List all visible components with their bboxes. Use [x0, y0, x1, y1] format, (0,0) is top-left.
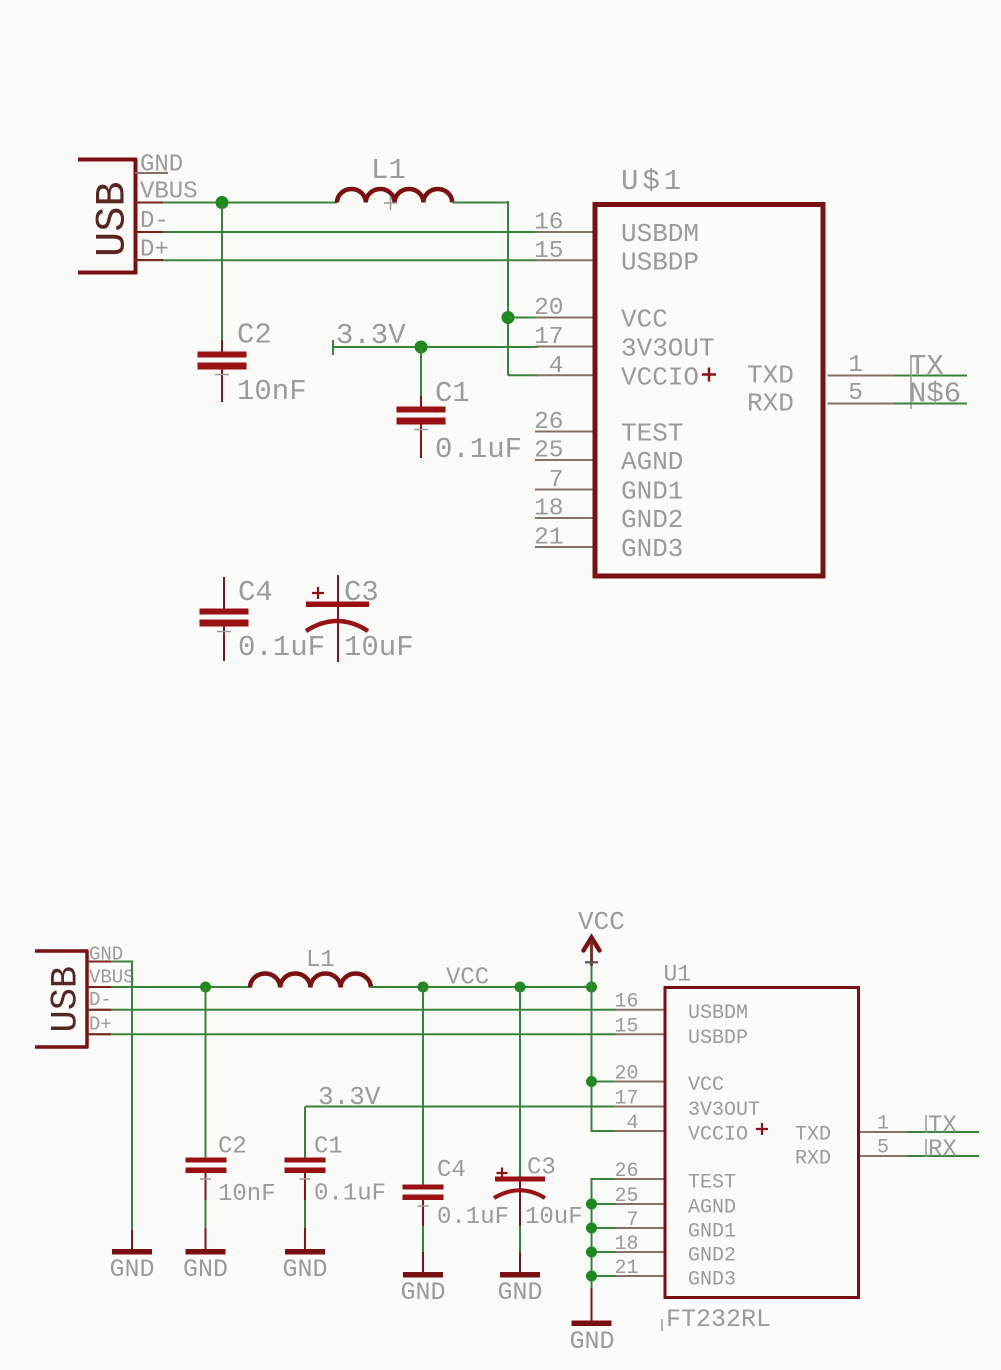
svg-text:17: 17	[614, 1088, 638, 1111]
svg-text:D+: D+	[89, 1014, 112, 1036]
junction node VCC pin 20 (bottom)	[586, 1076, 597, 1087]
svg-text:USBDP: USBDP	[688, 1027, 748, 1050]
svg-text:10nF: 10nF	[218, 1181, 276, 1208]
svg-text:17: 17	[534, 324, 563, 351]
inductor L1 (bottom)	[250, 974, 371, 988]
ground symbol GND (C2, bottom)	[183, 1249, 228, 1284]
svg-text:USBDM: USBDM	[621, 219, 699, 249]
svg-text:TXD: TXD	[747, 360, 794, 390]
svg-text:0.1uF: 0.1uF	[435, 433, 522, 466]
U$1 pin 4 VCCIO	[535, 353, 716, 393]
wire VCC riser to pin 20/4 (bottom)	[592, 987, 617, 1131]
svg-text:18: 18	[534, 496, 563, 523]
capacitor C2 (top)	[198, 203, 247, 403]
junction node VBUS/C2 (top)	[216, 196, 229, 209]
U$1 pin 5 RXD (right)	[828, 380, 894, 407]
U1 pin 16 USBDM	[614, 991, 748, 1025]
svg-text:C1: C1	[314, 1134, 343, 1161]
U1 pin 26 TEST	[614, 1160, 736, 1195]
svg-text:VCC: VCC	[621, 305, 668, 335]
svg-text:GND: GND	[569, 1327, 614, 1356]
svg-text:C2: C2	[237, 319, 272, 352]
svg-text:GND: GND	[109, 1255, 154, 1284]
svg-text:20: 20	[534, 295, 563, 322]
U1 pin 17 3V3OUT	[614, 1088, 760, 1123]
wire GND net from USB (bottom)	[88, 962, 132, 1231]
U$1 pin 1 TXD (right)	[828, 352, 894, 379]
junction node pin 7	[586, 1223, 597, 1234]
wire to pin 20 (bottom)	[592, 1081, 617, 1083]
U1 pin 25 AGND	[614, 1185, 736, 1220]
U$1 pin 7 GND1	[535, 467, 683, 507]
svg-text:GND3: GND3	[688, 1269, 736, 1292]
U1 pin 7 GND1	[614, 1209, 736, 1244]
svg-text:L1: L1	[306, 947, 335, 974]
svg-text:10uF: 10uF	[525, 1204, 583, 1231]
svg-text:3.3V: 3.3V	[336, 319, 406, 352]
svg-text:15: 15	[534, 238, 563, 265]
svg-text:GND2: GND2	[688, 1245, 736, 1268]
svg-text:VCCIO: VCCIO	[621, 362, 699, 392]
junction node VCC/C3 (bottom)	[515, 982, 526, 993]
svg-text:VBUS: VBUS	[89, 967, 135, 989]
svg-text:GND: GND	[183, 1255, 228, 1284]
svg-text:AGND: AGND	[688, 1197, 736, 1220]
USB pin stubs (top)	[135, 203, 163, 261]
net label anchor tick RX (bottom)	[925, 1139, 927, 1157]
svg-text:0.1uF: 0.1uF	[437, 1204, 509, 1231]
U1 pin 20 VCC	[614, 1063, 724, 1098]
ground symbol GND (C4, bottom)	[400, 1272, 445, 1307]
svg-text:3.3V: 3.3V	[318, 1082, 381, 1112]
wire VBUS: USB to L1 (bottom)	[88, 986, 250, 988]
supply symbol VCC (bottom)	[578, 907, 625, 987]
svg-text:TEST: TEST	[621, 419, 683, 449]
svg-text:N$6: N$6	[909, 378, 961, 411]
svg-text:0.1uF: 0.1uF	[238, 631, 325, 664]
U$1 pin 21 GND3	[534, 525, 683, 565]
wire net TX (top)	[893, 375, 967, 377]
wire 3.3V net (bottom)	[305, 1106, 616, 1108]
svg-text:7: 7	[549, 467, 564, 494]
svg-text:16: 16	[614, 991, 638, 1014]
svg-text:C3: C3	[344, 576, 379, 609]
USB pin stubs (bottom)	[88, 962, 111, 1035]
value anchor tick FT232RL	[661, 1319, 663, 1331]
wire D- from USB to pin 16 (bottom)	[88, 1009, 616, 1011]
svg-text:VCC: VCC	[688, 1074, 724, 1097]
U1 pin 4 VCCIO	[614, 1112, 768, 1147]
svg-text:AGND: AGND	[621, 447, 683, 477]
USB pin GND stub (top)	[135, 172, 168, 174]
svg-text:25: 25	[614, 1185, 638, 1208]
U1 pin 5 RXD (right)	[860, 1137, 907, 1160]
svg-text:25: 25	[534, 438, 563, 465]
svg-text:C4: C4	[238, 576, 273, 609]
inductor L1 (top)	[337, 189, 452, 203]
net label anchor tick TX (bottom)	[925, 1115, 927, 1133]
wire GND bus to pin 18	[592, 1251, 617, 1253]
capacitor C4 (top, unconnected)	[200, 577, 249, 661]
svg-text:C4: C4	[437, 1157, 466, 1184]
junction node pin 25	[586, 1199, 597, 1210]
svg-text:TXD: TXD	[795, 1124, 831, 1147]
wire GND bus to pin 25	[592, 1203, 617, 1205]
wire net RX (bottom)	[907, 1155, 979, 1157]
ground symbol GND (IC, bottom)	[569, 1321, 614, 1357]
wire VCC: L1 to VCC symbol riser (bottom)	[371, 986, 592, 988]
wire D- from USB to pin 16 (top)	[135, 231, 538, 233]
U1 pin 21 GND3	[614, 1257, 736, 1292]
svg-text:VCC: VCC	[446, 965, 489, 992]
net label 3.3V anchor cross (top)	[332, 340, 334, 355]
svg-text:D-: D-	[89, 989, 112, 1011]
svg-text:D-: D-	[140, 208, 169, 235]
U$1 pin 18 GND2	[534, 496, 683, 536]
U$1 pin 25 AGND	[534, 438, 683, 478]
svg-text:10nF: 10nF	[237, 375, 307, 408]
junction node 3.3V/C1 (top)	[415, 341, 428, 354]
IC U$1 FT232RL (top)	[595, 205, 823, 577]
svg-text:5: 5	[848, 380, 863, 407]
svg-text:4: 4	[626, 1112, 638, 1135]
svg-text:GND2: GND2	[621, 505, 683, 535]
capacitor C2 (bottom)	[186, 987, 227, 1249]
junction node pin 18	[586, 1247, 597, 1258]
svg-text:20: 20	[614, 1063, 638, 1086]
svg-text:USBDM: USBDM	[688, 1002, 748, 1025]
U$1 pin 20 VCC	[534, 295, 668, 335]
svg-text:RXD: RXD	[795, 1148, 831, 1171]
svg-text:FT232RL: FT232RL	[666, 1305, 771, 1334]
wire VCC vertical to pin 4 row (top)	[507, 201, 509, 375]
ground symbol GND (USB, bottom)	[109, 1249, 154, 1284]
wire to pin 20 (top)	[508, 317, 538, 319]
L1 origin cross (top)	[384, 196, 397, 210]
svg-text:USB: USB	[46, 966, 88, 1033]
svg-text:15: 15	[614, 1015, 638, 1038]
svg-text:26: 26	[534, 409, 563, 436]
wire VBUS: USB to L1 (top)	[135, 202, 337, 204]
svg-text:C1: C1	[435, 377, 470, 410]
junction node VCC/C4 (bottom)	[418, 982, 429, 993]
svg-text:U1: U1	[664, 962, 692, 988]
wire L1 to VCC corner (top)	[452, 202, 508, 204]
svg-text:1: 1	[877, 1113, 889, 1136]
U$1 pin 17 3V3OUT	[534, 324, 715, 364]
svg-text:USB: USB	[89, 181, 137, 257]
U1 pin 18 GND2	[614, 1233, 736, 1268]
svg-text:3V3OUT: 3V3OUT	[688, 1099, 760, 1122]
USB connector X1 (bottom)	[35, 951, 89, 1048]
wire net N$6 (top)	[893, 403, 967, 405]
capacitor C1 (top)	[397, 347, 446, 458]
svg-text:3V3OUT: 3V3OUT	[621, 334, 715, 364]
wire D+ from USB to pin 15 (bottom)	[88, 1033, 616, 1035]
svg-text:RXD: RXD	[747, 389, 794, 419]
svg-text:5: 5	[877, 1137, 889, 1160]
wire net TX (bottom)	[907, 1131, 979, 1133]
wire GND bus to pin 21	[592, 1275, 617, 1277]
junction node VBUS/C2 (bottom)	[200, 982, 211, 993]
wire D+ from USB to pin 15 (top)	[135, 259, 538, 261]
capacitor C1 (bottom)	[285, 1107, 326, 1250]
svg-text:GND: GND	[282, 1255, 327, 1284]
svg-text:1: 1	[848, 352, 863, 379]
svg-text:VBUS: VBUS	[140, 179, 198, 206]
junction node VCC pin20 (top)	[502, 311, 515, 324]
svg-text:GND1: GND1	[688, 1221, 736, 1244]
U$1 pin 16 USBDM	[534, 210, 699, 250]
svg-text:GND: GND	[400, 1278, 445, 1307]
wire GND bus (bottom)	[592, 1179, 615, 1288]
svg-text:21: 21	[534, 525, 563, 552]
svg-text:GND: GND	[140, 152, 183, 179]
ground symbol GND (C1, bottom)	[282, 1249, 327, 1284]
capacitor C4 (bottom)	[403, 987, 444, 1273]
svg-text:TEST: TEST	[688, 1172, 736, 1195]
svg-text:L1: L1	[371, 154, 406, 187]
svg-text:U$1: U$1	[621, 165, 685, 198]
wire GND bus to pin 7	[592, 1227, 617, 1229]
svg-text:0.1uF: 0.1uF	[314, 1181, 386, 1208]
svg-text:10uF: 10uF	[344, 631, 414, 664]
U1 pin 1 TXD (right)	[860, 1113, 907, 1136]
USB connector X1 (top)	[78, 159, 137, 275]
svg-text:18: 18	[614, 1233, 638, 1256]
U1 pin 15 USBDP	[614, 1015, 748, 1050]
U$1 pin 15 USBDP	[534, 238, 699, 278]
svg-text:GND1: GND1	[621, 477, 683, 507]
wire 3.3V net (top)	[332, 346, 538, 348]
svg-text:GND: GND	[497, 1278, 542, 1307]
svg-text:GND3: GND3	[621, 534, 683, 564]
svg-text:USBDP: USBDP	[621, 248, 699, 278]
capacitor C3 polarized (bottom)	[494, 987, 545, 1273]
svg-text:TX: TX	[928, 1113, 957, 1140]
svg-text:VCC: VCC	[578, 907, 625, 937]
svg-text:C3: C3	[527, 1155, 556, 1182]
junction node VCC riser (bottom)	[586, 982, 597, 993]
svg-text:4: 4	[549, 353, 564, 380]
ground symbol GND (C3, bottom)	[497, 1272, 542, 1307]
svg-text:7: 7	[626, 1209, 638, 1232]
IC U1 FT232RL (bottom)	[665, 988, 859, 1298]
svg-text:21: 21	[614, 1257, 638, 1280]
capacitor C3 polarized (top, unconnected)	[306, 575, 369, 662]
U$1 pin 26 TEST	[534, 409, 683, 449]
svg-text:RX: RX	[928, 1137, 957, 1164]
wire to pin 4 (top)	[508, 374, 538, 376]
svg-text:26: 26	[614, 1160, 638, 1183]
svg-text:C2: C2	[218, 1134, 247, 1161]
svg-text:VCCIO: VCCIO	[688, 1124, 748, 1147]
net label anchor ticks TX/N$6 (top)	[910, 355, 912, 409]
junction node pin 21	[586, 1271, 597, 1282]
svg-text:16: 16	[534, 210, 563, 237]
